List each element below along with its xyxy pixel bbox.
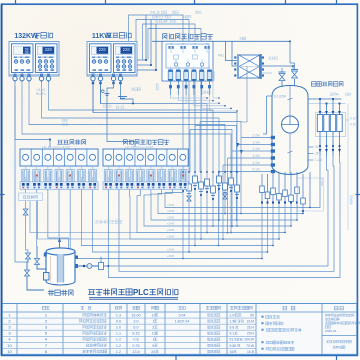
svg-text:M: M [206,42,208,46]
svg-text:9.04: 9.04 [179,313,186,317]
svg-text:L1L P1~1L1·1~9·CM: L1L P1~1L1·1~9·CM [125,145,153,149]
svg-text:M: M [348,93,351,97]
svg-text:.: . [354,314,355,318]
svg-text:9.8: 9.8 [230,326,235,330]
svg-text:1.: 1. [183,15,186,19]
svg-text:·: · [107,105,108,109]
svg-text:16: 16 [230,350,234,354]
svg-text:+2M6: +2M6 [167,228,175,232]
svg-text:1.2: 1.2 [116,338,121,342]
svg-text:0.75: 0.75 [132,344,139,348]
svg-text:0.1M: 0.1M [350,123,357,127]
svg-text:1.0²: 1.0² [230,313,237,317]
svg-text:5.1M: 5.1M [252,167,259,171]
svg-text:29.H: 29.H [247,332,255,336]
svg-text:35: 35 [315,152,319,156]
svg-text:X4L: X4L [150,11,156,15]
svg-text:100.W: 100.W [244,338,255,342]
svg-text:9.1: 9.1 [230,332,235,336]
svg-text:45M#2: 45M#2 [350,195,354,205]
svg-text:+2M6: +2M6 [167,248,175,252]
svg-text:228: 228 [45,47,53,52]
svg-text:10: 10 [7,349,12,354]
svg-text:·: · [168,20,169,24]
svg-text:+2M6: +2M6 [167,209,175,213]
svg-text:1050: 1050 [156,83,160,90]
svg-text:2035.04.: 2035.04. [325,329,337,333]
svg-text:1.1M: 1.1M [315,158,322,162]
svg-text:L1L P1~1L1·1~9·CM: L1L P1~1L1·1~9·CM [42,145,70,149]
svg-text:1.0: 1.0 [116,326,121,330]
svg-text:16.B: 16.B [247,350,255,354]
svg-text:10: 10 [7,343,12,348]
svg-text:38: 38 [25,51,29,55]
svg-text:20: 20 [151,350,155,354]
svg-text:132KW: 132KW [14,33,38,40]
svg-text:1.3: 1.3 [116,313,121,317]
svg-text:26.H: 26.H [247,326,255,330]
svg-text:6.0: 6.0 [133,326,138,330]
svg-text:+2M6: +2M6 [167,235,175,239]
svg-text:0.1M: 0.1M [350,117,357,121]
svg-text:+2M6: +2M6 [167,216,175,220]
svg-text:4M1: 4M1 [218,54,224,58]
svg-text:51.9.: 51.9. [230,338,238,342]
svg-text:6.15: 6.15 [132,332,139,336]
svg-text:1.8CK 04: 1.8CK 04 [175,319,190,323]
svg-text:11KW: 11KW [92,33,111,40]
svg-text:1: 1 [153,319,155,323]
svg-text:0.8: 0.8 [133,338,138,342]
svg-text:W1 P1: W1 P1 [36,92,46,96]
svg-text:+2M6: +2M6 [167,203,175,207]
svg-text:5.86: 5.86 [230,344,237,348]
svg-text:M: M [336,93,339,97]
svg-text:M: M [182,42,184,46]
svg-text:0.6: 0.6 [116,319,121,323]
svg-text:3.1M: 3.1M [252,154,259,158]
svg-text:2: 2 [152,326,154,330]
svg-text:·: · [163,15,164,19]
svg-text:3050M: 3050M [212,71,216,81]
svg-text:70.W: 70.W [246,344,255,348]
svg-text:PLC: PLC [133,288,149,297]
svg-text:1: 1 [153,338,155,342]
svg-text:+2M6: +2M6 [167,254,175,258]
svg-text:M: M [170,42,172,46]
svg-text:1.2: 1.2 [116,344,121,348]
svg-text:1.2: 1.2 [116,350,121,354]
svg-text:3.1M: 3.1M [252,140,259,144]
svg-text:228: 228 [99,47,107,52]
svg-text:50: 50 [315,145,319,149]
svg-text:M: M [194,42,196,46]
svg-text:·: · [119,106,120,110]
svg-text:3.1M: 3.1M [252,161,259,165]
svg-text:10: 10 [152,313,156,317]
svg-text:9: 9 [152,344,154,348]
svg-text:15.00: 15.00 [131,313,140,317]
svg-text:10: 10 [152,332,156,336]
svg-text:50: 50 [250,313,254,317]
svg-text:1.9: 1.9 [230,319,235,323]
svg-text:8-1165M: 8-1165M [274,95,287,99]
svg-text:19.M: 19.M [246,319,254,323]
svg-text:3.0: 3.0 [133,319,138,323]
svg-text:228: 228 [123,47,131,52]
svg-text:3.1M: 3.1M [252,147,259,151]
svg-text:13.5: 13.5 [132,350,139,354]
svg-text:2.2M: 2.2M [252,133,259,137]
svg-text:+2M6: +2M6 [167,222,175,226]
svg-text:1.1: 1.1 [116,332,121,336]
